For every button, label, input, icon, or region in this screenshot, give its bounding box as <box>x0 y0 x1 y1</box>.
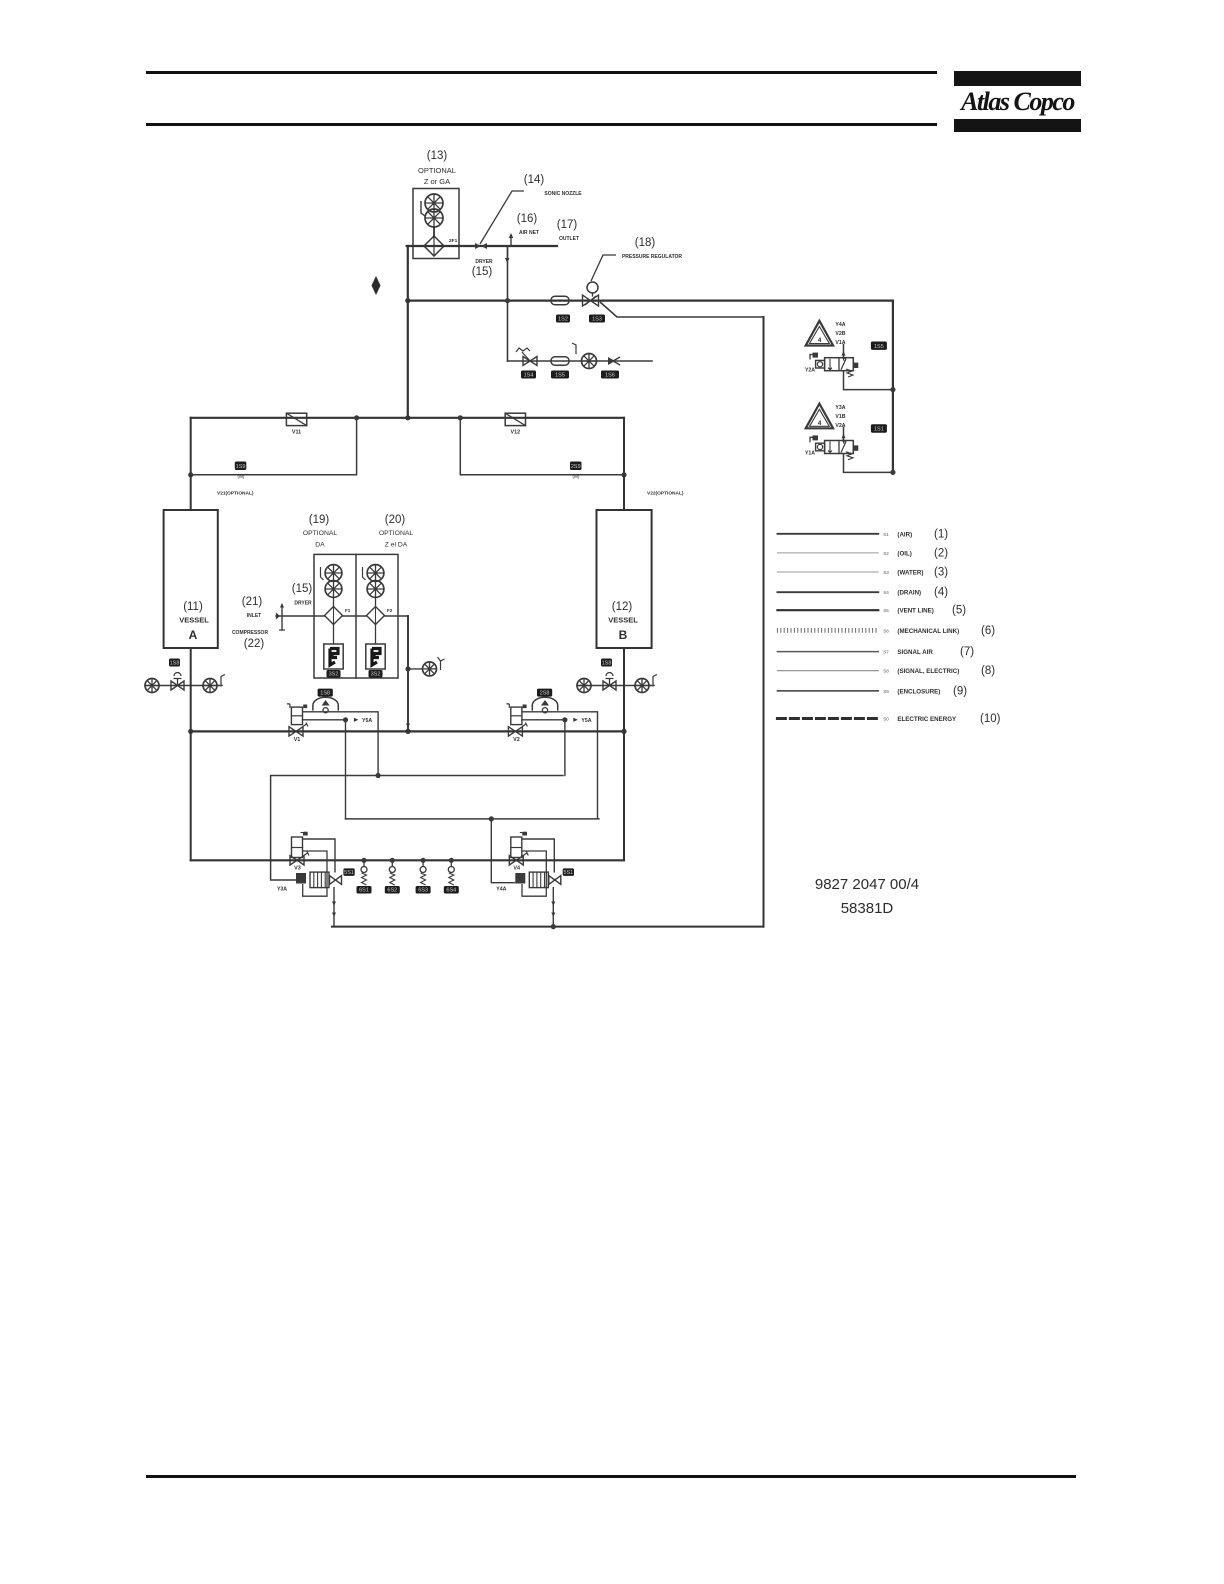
signal drop of V1 <box>345 720 347 819</box>
drain valve on vessel drain line <box>603 681 610 690</box>
tag of drain valve D3 <box>416 886 431 894</box>
part number line 1 <box>767 876 967 893</box>
autodrain box under F2 <box>366 644 385 669</box>
svg-text:1S8: 1S8 <box>170 661 180 667</box>
solenoid block of Y3A <box>296 873 306 884</box>
svg-text:Z el DA: Z el DA <box>385 542 408 549</box>
svg-text:(14): (14) <box>524 174 545 186</box>
muffler cylinder of Y4A <box>529 872 548 888</box>
pressure regulator (18) on line 2 <box>587 282 598 293</box>
svg-text:(11): (11) <box>183 601 203 613</box>
tag of drain valve D2 <box>385 886 400 894</box>
inlet line into dryers (21) <box>276 615 325 617</box>
svg-text:3S2: 3S2 <box>329 672 339 678</box>
pilot output line of V2 <box>522 712 598 819</box>
svg-text:V1B: V1B <box>835 414 845 420</box>
svg-text:(20): (20) <box>385 514 406 526</box>
actuator dome of V1 <box>313 697 338 710</box>
pipe below solenoid valve 1 to enclosure edge <box>844 371 893 390</box>
svg-text:(19): (19) <box>309 514 330 526</box>
svg-text:Y4A: Y4A <box>496 887 506 893</box>
drain valve D3 <box>421 858 426 863</box>
second gauge on drain line <box>203 679 217 693</box>
svg-text:V22(OPTIONAL): V22(OPTIONAL) <box>647 491 684 497</box>
svg-text:(13): (13) <box>427 150 448 162</box>
svg-text:(21): (21) <box>242 596 263 608</box>
valve V3 on drain header <box>290 856 297 865</box>
svg-text:(9): (9) <box>953 685 967 697</box>
safety valve on line 3 <box>523 357 530 366</box>
svg-text:1S2: 1S2 <box>558 317 568 323</box>
electric connection bracket of Y2A <box>810 355 814 360</box>
svg-text:Y3A: Y3A <box>277 887 287 893</box>
svg-text:2F1: 2F1 <box>449 238 458 244</box>
pilot line lower wrap of V4 <box>522 851 547 896</box>
dryer column gauges near F2 <box>367 565 384 582</box>
electric connection bracket of Y1A <box>810 437 814 442</box>
svg-text:1S3: 1S3 <box>592 317 602 323</box>
branch to vent gauge <box>408 668 423 670</box>
svg-text:(5): (5) <box>952 605 966 617</box>
svg-text:Y5A: Y5A <box>362 718 372 724</box>
wire left bypass ring <box>191 418 357 475</box>
gauge G1 upper circle in block 13 <box>425 194 443 212</box>
svg-text:S2: S2 <box>883 551 889 556</box>
silencer S on line 2 <box>551 296 569 305</box>
tag on line2 silencer <box>556 315 570 323</box>
svg-text:OPTIONAL: OPTIONAL <box>418 166 456 175</box>
legend row (8) (SIGNAL, ELECTRIC) <box>777 670 878 672</box>
tag of drain valve D4 <box>444 886 459 894</box>
svg-text:S7: S7 <box>883 650 889 655</box>
svg-text:SONIC NOZZLE: SONIC NOZZLE <box>544 191 582 197</box>
legend row (10) ELECTRIC ENERGY <box>777 717 878 720</box>
svg-text:V21(OPTIONAL): V21(OPTIONAL) <box>217 491 254 497</box>
svg-text:(1): (1) <box>934 528 948 540</box>
small fold mark diamond <box>372 276 381 295</box>
svg-text:3S2: 3S2 <box>371 672 381 678</box>
drain valve D1 <box>361 858 366 863</box>
sonic nozzle symbol on line 1 <box>475 243 487 249</box>
solenoid block of Y4A <box>515 873 525 884</box>
svg-text:4: 4 <box>818 337 822 344</box>
svg-text:V4: V4 <box>513 866 520 872</box>
pilot line lower wrap of V3 <box>303 851 328 896</box>
legend row (7) SIGNAL AIR <box>777 651 878 653</box>
pipe above solenoid valve 2 <box>843 427 845 440</box>
tag near solenoid assembly 1 <box>871 342 887 350</box>
legend row (3) (WATER) <box>777 571 878 573</box>
svg-text:1S1: 1S1 <box>874 427 884 433</box>
svg-text:(8): (8) <box>981 665 995 677</box>
svg-text:Y3A: Y3A <box>835 405 845 411</box>
filter F2 diamond <box>367 607 385 625</box>
svg-text:1S8: 1S8 <box>320 691 330 697</box>
svg-text:(MECHANICAL LINK): (MECHANICAL LINK) <box>897 628 959 635</box>
svg-text:4: 4 <box>818 420 822 427</box>
svg-text:(15): (15) <box>292 583 313 595</box>
pilot signal line of V2 <box>522 719 565 721</box>
outlet valve of Y3A <box>330 876 336 885</box>
dryer option stub with down arrow (15) <box>507 246 509 260</box>
svg-text:6S4: 6S4 <box>446 888 456 894</box>
drain tick left of gauges in block 13 <box>421 201 425 216</box>
wire bottom drain header (y=860.3) <box>191 859 624 861</box>
warning triangle 1 <box>806 321 833 346</box>
svg-text:V1: V1 <box>294 737 301 743</box>
tag on left bypass <box>235 462 247 471</box>
wire pilot feed to right bottom assembly <box>491 819 515 883</box>
dryer column gauges near F1 <box>325 565 342 582</box>
actuator dome of V2 <box>532 697 557 710</box>
exhaust port block of solenoid valve 1 <box>853 363 858 368</box>
wire vessel A downcomer <box>190 648 192 860</box>
return spring of solenoid valve 2 <box>846 452 853 460</box>
svg-text:DRYER: DRYER <box>475 259 493 265</box>
svg-text:(M): (M) <box>238 474 245 479</box>
svg-text:(18): (18) <box>635 237 656 249</box>
tag below safety valve <box>521 371 536 379</box>
air net stub with up arrow (16) <box>510 235 512 246</box>
svg-text:6S3: 6S3 <box>418 888 428 894</box>
tag above V2 <box>537 689 552 697</box>
svg-text:V11: V11 <box>292 430 301 436</box>
svg-text:(12): (12) <box>612 601 633 613</box>
wire vessel A riser <box>190 418 192 510</box>
enclosure box of optional compressor block 13 <box>413 189 459 259</box>
svg-text:1S5: 1S5 <box>555 373 565 379</box>
svg-text:1S9: 1S9 <box>236 464 246 470</box>
check valve V12 <box>505 413 525 425</box>
svg-text:1S8: 1S8 <box>602 661 612 667</box>
wire gauge to filter in block 13 <box>433 227 435 237</box>
svg-text:A: A <box>189 628 198 642</box>
tag above V1 <box>318 689 333 697</box>
svg-text:2S8: 2S8 <box>540 691 550 697</box>
tag right of Y3A <box>343 868 354 876</box>
second gauge on drain line <box>635 679 649 693</box>
wire main line 1 from block 13 to outlet <box>407 245 557 247</box>
vent line of Y4A <box>552 888 554 927</box>
legend row (1) (AIR) <box>777 533 878 535</box>
autodrain box under F1 <box>324 644 343 669</box>
tag right of Y4A <box>563 868 574 876</box>
svg-text:V2B: V2B <box>835 331 845 337</box>
tag of drain valve D1 <box>357 886 372 894</box>
wire branch from regulator to right drain header <box>600 302 764 317</box>
vessel A (11) <box>164 510 218 648</box>
svg-text:VESSEL: VESSEL <box>179 616 209 625</box>
svg-text:F2: F2 <box>387 608 393 613</box>
wire main valve cross line <box>191 730 624 732</box>
drain valve D4 <box>449 858 454 863</box>
svg-text:1S4: 1S4 <box>524 373 534 379</box>
svg-text:(16): (16) <box>517 213 538 225</box>
muffler cylinder of Y3A <box>310 872 329 888</box>
outlet valve of Y4A <box>549 876 555 885</box>
svg-text:(17): (17) <box>557 219 578 231</box>
tag below check valve <box>601 371 619 379</box>
wire filter F2 to autodrain <box>375 625 377 645</box>
svg-text:1S5: 1S5 <box>874 344 884 350</box>
svg-text:V3: V3 <box>294 866 301 872</box>
legend row (6) (MECHANICAL LINK) <box>777 628 876 633</box>
svg-text:S4: S4 <box>883 590 889 595</box>
warning triangle 2 <box>806 404 833 429</box>
tag on right bypass <box>570 462 582 471</box>
svg-text:S6: S6 <box>883 628 889 633</box>
svg-text:(22): (22) <box>244 638 265 650</box>
wire right bypass ring <box>460 418 624 475</box>
wire right enclosure vertical <box>892 301 894 473</box>
return spring of solenoid valve 1 <box>846 369 853 377</box>
svg-text:S0: S0 <box>883 717 889 722</box>
exhaust port block of solenoid valve 2 <box>853 445 858 450</box>
svg-text:OPTIONAL: OPTIONAL <box>379 530 414 537</box>
pilot output line of V1 <box>303 712 379 776</box>
drain valve on vessel drain line <box>171 681 178 690</box>
svg-text:Y1A: Y1A <box>805 450 815 456</box>
wire cross-over line A (y=775.5) <box>271 776 564 881</box>
svg-text:DRYER: DRYER <box>294 601 312 607</box>
svg-text:Y2A: Y2A <box>805 368 815 374</box>
svg-text:OUTLET: OUTLET <box>559 236 579 242</box>
svg-text:(2): (2) <box>934 547 948 559</box>
vessel B (12) <box>597 510 652 648</box>
valve V1 on cross line <box>289 727 296 736</box>
filter 2F1 diamond <box>424 236 444 256</box>
wire bottom vent header (y=926.6) <box>332 926 764 928</box>
svg-text:V2: V2 <box>513 737 520 743</box>
wire vessel B riser <box>623 418 625 510</box>
svg-text:1S6: 1S6 <box>605 373 615 379</box>
solenoid coil box of Y1A <box>816 443 825 451</box>
vessel drain line with gauges <box>145 685 222 687</box>
svg-text:(4): (4) <box>934 587 948 599</box>
tag below regulator <box>589 315 605 323</box>
wire cross-over line B (y=818.9) <box>346 818 599 820</box>
header rule bottom <box>146 123 937 126</box>
wire gauge to filter F2 <box>375 597 377 606</box>
pilot line upper of V4 <box>522 839 555 873</box>
filter F1 diamond <box>325 607 343 625</box>
drain valve D2 <box>390 858 395 863</box>
pilot operated valve V1 assembly <box>291 707 302 725</box>
wire dryer outlet down to valve line <box>407 616 409 731</box>
svg-text:COMPRESSOR: COMPRESSOR <box>232 630 269 636</box>
wire filter F1 to autodrain <box>333 625 335 645</box>
svg-text:S3: S3 <box>883 570 889 575</box>
legend row (2) (OIL) <box>777 552 878 554</box>
check valve on line 3 <box>608 357 615 365</box>
svg-text:2S9: 2S9 <box>571 464 581 470</box>
tag near solenoid assembly 2 <box>871 424 887 432</box>
Atlas Copco logo <box>954 71 1081 133</box>
pilot valve of bottom assembly V4 <box>511 837 522 858</box>
solenoid valve Y2A body <box>825 358 854 371</box>
wire vertical dryer-option drop from line1 to blowoff line <box>507 246 509 361</box>
svg-text:(AIR): (AIR) <box>897 531 912 538</box>
dryer option marker (15) <box>281 605 283 630</box>
tag below line3 silencer <box>551 371 569 379</box>
svg-text:V12: V12 <box>511 430 521 436</box>
svg-text:PRESSURE REGULATOR: PRESSURE REGULATOR <box>622 254 682 260</box>
svg-text:OPTIONAL: OPTIONAL <box>303 530 338 537</box>
svg-text:(3): (3) <box>934 567 948 579</box>
wire vessel B downcomer <box>623 648 625 860</box>
pilot signal line of V1 <box>303 719 346 721</box>
svg-text:(M): (M) <box>573 474 580 479</box>
wire right vertical drain header <box>763 317 765 927</box>
svg-text:AIR NET: AIR NET <box>519 230 539 236</box>
svg-text:5S1: 5S1 <box>563 870 573 876</box>
legend row (9) (ENCLOSURE) <box>777 690 878 692</box>
svg-text:F1: F1 <box>345 608 351 613</box>
legend row (5) (VENT LINE) <box>777 609 878 611</box>
svg-text:INLET: INLET <box>247 613 261 619</box>
svg-text:B: B <box>619 628 628 642</box>
svg-text:ELECTRIC ENERGY: ELECTRIC ENERGY <box>897 716 957 723</box>
part number line 2 <box>767 900 967 917</box>
svg-text:S8: S8 <box>883 669 889 674</box>
svg-text:S9: S9 <box>883 689 889 694</box>
svg-text:Z or GA: Z or GA <box>424 177 450 186</box>
svg-text:(WATER): (WATER) <box>897 570 923 577</box>
valve V4 on drain header <box>509 856 516 865</box>
svg-text:Y5A: Y5A <box>581 718 591 724</box>
svg-text:(7): (7) <box>960 646 974 658</box>
solenoid coil box of Y2A <box>816 360 825 368</box>
svg-text:VESSEL: VESSEL <box>608 616 638 625</box>
pipe below solenoid valve 2 to enclosure edge <box>844 454 893 473</box>
vent line of Y3A <box>333 888 335 927</box>
pipe above solenoid valve 1 <box>843 345 845 358</box>
svg-text:5S1: 5S1 <box>344 870 354 876</box>
svg-text:S1: S1 <box>883 532 889 537</box>
svg-text:(ENCLOSURE): (ENCLOSURE) <box>897 688 940 695</box>
stem tick left of gauge on line 3 <box>572 343 576 354</box>
vent mark at gauge <box>438 657 445 670</box>
pilot line upper of V3 <box>303 839 336 873</box>
tag above drain valve <box>601 659 612 667</box>
tag under autodrain F1 <box>327 670 341 678</box>
svg-text:6S2: 6S2 <box>387 888 397 894</box>
vent tick on drain line <box>649 675 657 686</box>
footer rule <box>146 1475 1076 1478</box>
tag above drain valve <box>169 659 180 667</box>
svg-text:S5: S5 <box>883 608 889 613</box>
valve V2 on cross line <box>508 727 515 736</box>
vent gauge circle <box>423 662 437 676</box>
svg-text:(6): (6) <box>981 625 995 637</box>
legend row (4) (DRAIN) <box>777 591 878 593</box>
vessel drain line with gauges <box>577 685 654 687</box>
signal drop of V2 <box>564 720 566 776</box>
pilot operated valve V2 assembly <box>511 707 522 725</box>
svg-text:Y4A: Y4A <box>835 322 845 328</box>
dryer enclosure boxes <box>314 554 398 678</box>
svg-text:(15): (15) <box>472 266 493 278</box>
svg-text:(SIGNAL, ELECTRIC): (SIGNAL, ELECTRIC) <box>897 668 959 675</box>
svg-text:(OIL): (OIL) <box>897 550 911 557</box>
wire gauge to filter F1 <box>333 597 335 606</box>
pilot valve of bottom assembly V3 <box>292 837 303 858</box>
svg-text:(DRAIN): (DRAIN) <box>897 590 921 597</box>
silencer on line 3 <box>551 357 569 366</box>
gauge G2 lower circle in block 13 <box>425 209 443 227</box>
wire blow-off line 3 <box>508 360 653 362</box>
svg-text:SIGNAL AIR: SIGNAL AIR <box>897 649 933 656</box>
vent tick on drain line <box>217 675 225 686</box>
tag under autodrain F2 <box>369 670 383 678</box>
wire line 2 to right enclosure edge <box>408 300 893 302</box>
svg-text:(10): (10) <box>980 713 1001 725</box>
wire check-valve header line <box>191 417 624 419</box>
header rule top <box>146 71 937 74</box>
svg-text:DA: DA <box>315 542 325 549</box>
solenoid valve Y1A body <box>825 441 854 454</box>
wire vertical from line1 left end down to V11/V12 line <box>407 246 409 418</box>
svg-text:6S1: 6S1 <box>359 888 369 894</box>
check valve V11 <box>286 413 306 425</box>
svg-text:(VENT LINE): (VENT LINE) <box>897 608 933 615</box>
pressure gauge on line 3 <box>582 354 597 369</box>
